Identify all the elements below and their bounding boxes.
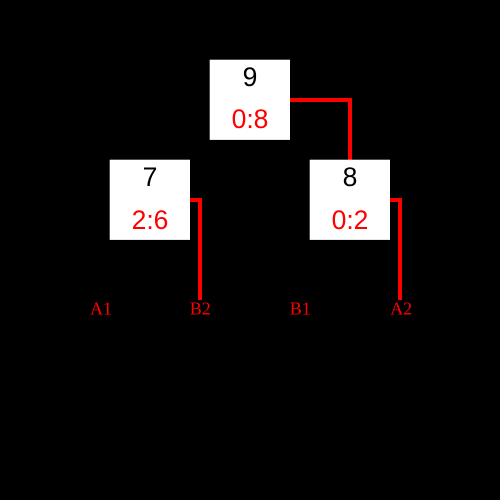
svg-text:8: 8 — [343, 162, 358, 192]
svg-text:7: 7 — [143, 162, 158, 192]
svg-text:2:6: 2:6 — [132, 205, 169, 235]
svg-text:0:8: 0:8 — [232, 104, 269, 134]
svg-text:A1: A1 — [90, 299, 112, 319]
svg-text:B1: B1 — [290, 299, 311, 319]
svg-text:9: 9 — [243, 62, 258, 92]
svg-text:B2: B2 — [190, 299, 211, 319]
svg-text:0:2: 0:2 — [332, 205, 369, 235]
svg-text:A2: A2 — [390, 299, 412, 319]
